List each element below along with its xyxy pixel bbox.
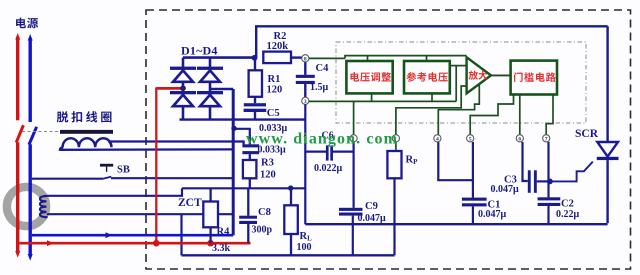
svg-text:120: 120 — [267, 85, 283, 96]
wire pin2 rail — [396, 86, 467, 135]
wire pin1 column — [353, 142, 355, 208]
wire AC1 to bridge — [156, 87, 183, 90]
resistor R3 — [249, 154, 251, 160]
ZCT secondary winding — [40, 196, 48, 217]
wire common bus bottom — [182, 254, 395, 256]
pin 7 — [543, 135, 550, 142]
wire SCR gate — [552, 162, 593, 182]
pin 3 — [302, 97, 309, 104]
wire pin8 to blocks — [309, 57, 345, 59]
svg-text:C2: C2 — [561, 198, 574, 209]
pin 2 — [392, 135, 399, 142]
capacitor C8 — [247, 188, 249, 216]
wire SB to N line — [32, 178, 103, 180]
wire SB to AC2 column — [111, 177, 233, 179]
wire pin6 drop — [519, 95, 521, 135]
wire common bus mid — [305, 223, 607, 225]
trip coil core bar — [60, 130, 113, 134]
capacitor C1 — [462, 198, 487, 201]
capacitor C5 — [244, 103, 266, 106]
wire amp output — [491, 74, 511, 76]
capacitor C2 — [538, 197, 561, 200]
capacitor C7 — [242, 144, 259, 147]
wire pin1 drop — [353, 101, 355, 134]
wire top rail drops — [367, 56, 369, 61]
pin 1 — [350, 135, 357, 142]
svg-text:3: 3 — [304, 99, 307, 105]
pin 4 — [434, 135, 441, 142]
wire pin2 to Rp — [395, 142, 397, 151]
wire AC2 branch to C7 — [234, 129, 250, 145]
pin 8 — [302, 55, 309, 62]
svg-text:0.047μ: 0.047μ — [358, 213, 387, 224]
junction red bus R4 — [207, 240, 214, 247]
wire pin3 rail — [309, 100, 456, 102]
svg-text:5: 5 — [469, 136, 472, 142]
svg-text:SB: SB — [117, 164, 130, 175]
svg-text:7: 7 — [545, 136, 548, 142]
wire coil upper lead — [108, 142, 243, 145]
wire AC2 column — [232, 89, 235, 235]
wire amp input1 — [456, 66, 466, 102]
capacitor C9 — [339, 208, 363, 211]
power line N (blue) lower — [29, 144, 32, 255]
svg-text:C9: C9 — [365, 201, 378, 212]
svg-text:120k: 120k — [267, 41, 289, 52]
diode D4 — [197, 91, 223, 94]
svg-text:300p: 300p — [252, 225, 273, 236]
wire pin5 column — [472, 142, 474, 198]
bridge bottom bus / common rail — [180, 118, 306, 120]
wire blue bus — [32, 234, 233, 237]
block threshold-circuit — [511, 61, 557, 95]
svg-text:0.047μ: 0.047μ — [491, 184, 520, 195]
svg-text:0.022μ: 0.022μ — [314, 163, 343, 174]
op-amp amplifier — [467, 57, 491, 93]
wire pin7 drop — [546, 95, 553, 135]
wire ZCT upper lead — [47, 188, 182, 196]
svg-text:D1~D4: D1~D4 — [181, 44, 218, 58]
svg-text:www. diangon. com: www. diangon. com — [246, 131, 398, 148]
wire pin5 link — [470, 95, 513, 135]
svg-text:R1: R1 — [268, 74, 281, 85]
junction R2 node — [252, 55, 258, 61]
wire DC+ riser — [255, 26, 257, 58]
pin 5 — [467, 135, 474, 142]
ZCT toroid core — [7, 187, 46, 226]
diode D2 — [197, 67, 223, 70]
block voltage-adjust — [346, 61, 392, 93]
diode D1 — [170, 67, 196, 70]
svg-text:SCR: SCR — [575, 128, 599, 140]
wire pin6 column — [523, 142, 528, 181]
junction bridge AC1 — [180, 85, 186, 91]
power line L (red) upper — [15, 33, 20, 40]
svg-text:0.047μ: 0.047μ — [478, 209, 507, 220]
junction AC2 branch — [231, 126, 236, 131]
wire pin4 column — [438, 142, 473, 180]
wire pin3 column — [304, 104, 306, 224]
label trip coil — [57, 111, 69, 122]
thyristor SCR — [597, 142, 618, 157]
svg-text:120: 120 — [260, 170, 276, 181]
label power source — [16, 18, 26, 29]
junction C3/C2/gate — [547, 179, 553, 185]
junction red bus AC1 — [153, 240, 160, 247]
breaker linkage dashed — [22, 131, 59, 133]
breaker blade red — [16, 125, 23, 142]
capacitor C4 — [304, 62, 306, 75]
diode D3 — [170, 91, 196, 94]
pin 6 — [516, 135, 523, 142]
power line L (red) lower — [16, 142, 19, 252]
wire red bus — [19, 242, 250, 245]
wire AC1 red vertical — [155, 87, 157, 243]
wire ZCT branch riser — [180, 214, 182, 255]
wire signal node 188 — [182, 187, 306, 189]
block reference-voltage — [404, 61, 450, 93]
wire DC+ top rail — [255, 25, 608, 27]
enclosure dashed border — [146, 10, 631, 269]
breaker blade blue — [29, 127, 37, 145]
svg-text:3.3k: 3.3k — [212, 243, 231, 254]
junction RL top — [288, 185, 293, 190]
svg-text:8: 8 — [304, 56, 307, 62]
bridge rails — [182, 58, 185, 120]
svg-text:C5: C5 — [267, 108, 280, 119]
power line N (blue) upper — [28, 34, 33, 41]
wire pin7 column — [547, 142, 549, 198]
svg-text:1.5μ: 1.5μ — [310, 82, 329, 93]
wire AC2 from bridge — [210, 88, 233, 90]
svg-text:C4: C4 — [316, 63, 330, 74]
resistor R1 — [254, 58, 256, 71]
resistor R4 — [209, 188, 211, 201]
capacitor C3 — [528, 170, 531, 193]
wire ZCT lower lead — [47, 213, 233, 215]
IC internal dash-dot box — [336, 42, 586, 123]
svg-text:4: 4 — [436, 136, 439, 142]
svg-text:R3: R3 — [261, 158, 274, 169]
svg-text:R4: R4 — [217, 227, 231, 238]
capacitor C6 — [305, 151, 326, 153]
resistor RL — [290, 188, 292, 205]
svg-text:100: 100 — [297, 242, 312, 253]
resistor R2 — [263, 52, 291, 64]
svg-text:C8: C8 — [258, 207, 271, 218]
wire output to pin4 — [438, 84, 479, 135]
wire SCR anode drop — [606, 26, 608, 142]
svg-text:ZCT: ZCT — [178, 197, 202, 209]
svg-text:0.22μ: 0.22μ — [556, 209, 580, 220]
push button SB — [100, 164, 113, 167]
bridge top bus — [183, 56, 255, 59]
trip coil inductor — [60, 138, 112, 151]
wire coil lower lead — [60, 148, 234, 151]
svg-text:6: 6 — [518, 136, 521, 142]
resistor Rp — [387, 151, 401, 178]
